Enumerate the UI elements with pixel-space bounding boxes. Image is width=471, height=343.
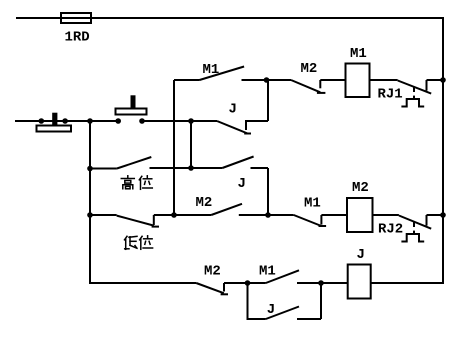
- svg-text:M2: M2: [301, 61, 318, 77]
- svg-text:RJ2: RJ2: [378, 222, 403, 238]
- svg-text:M1: M1: [203, 62, 220, 78]
- svg-text:M1: M1: [259, 264, 276, 280]
- svg-text:M2: M2: [204, 264, 221, 280]
- svg-text:J: J: [229, 102, 237, 118]
- svg-text:M1: M1: [350, 46, 367, 62]
- svg-text:M2: M2: [352, 180, 369, 196]
- svg-text:J: J: [267, 302, 275, 318]
- svg-text:J: J: [357, 247, 365, 263]
- svg-text:M1: M1: [304, 196, 321, 212]
- svg-text:RJ1: RJ1: [378, 87, 403, 103]
- svg-text:1RD: 1RD: [65, 30, 90, 46]
- svg-text:J: J: [238, 176, 246, 192]
- svg-text:M2: M2: [196, 195, 213, 211]
